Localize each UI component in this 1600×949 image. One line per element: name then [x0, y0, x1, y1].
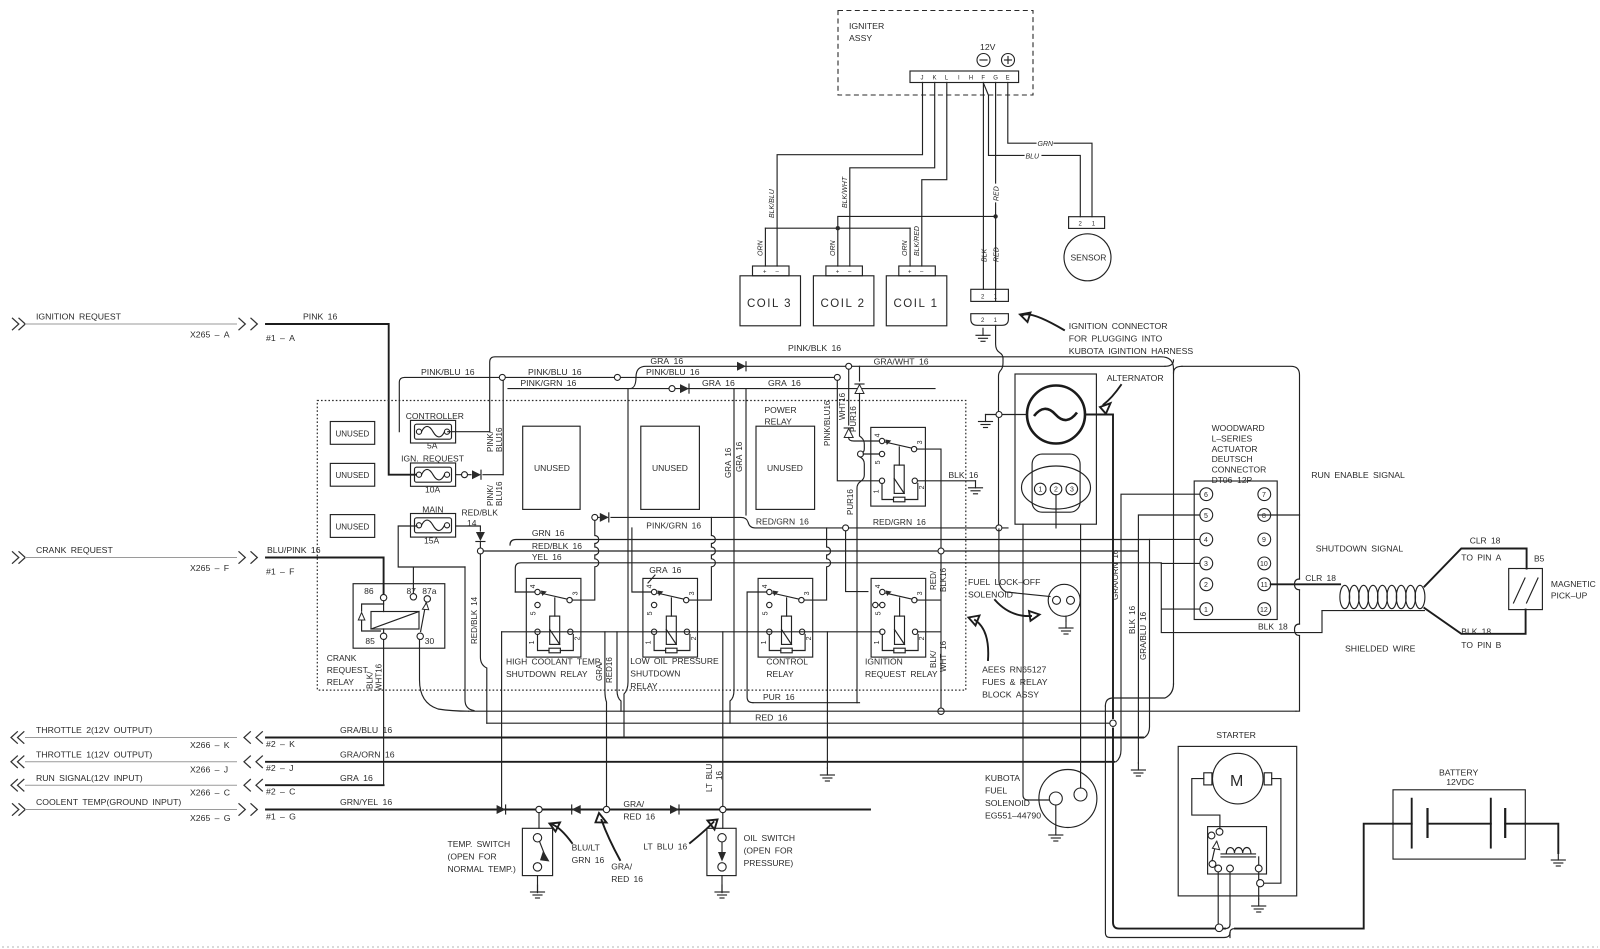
svg-text:1: 1 [1204, 607, 1208, 614]
svg-text:POWER: POWER [765, 405, 797, 415]
svg-text:PINK 16: PINK 16 [303, 312, 337, 322]
wire CLR 18 from pin11 to shielded cable [1271, 573, 1340, 584]
svg-text:BLU: BLU [1026, 153, 1041, 160]
node junction temp switch [536, 806, 542, 812]
svg-text:3: 3 [1070, 487, 1074, 494]
wire E to sensor pin 1 (GRN) [1008, 83, 1092, 217]
svg-text:LT BLU 16: LT BLU 16 [643, 842, 687, 852]
ignition connector lower (to Kubota harness) [971, 314, 1009, 326]
svg-text:WHT16: WHT16 [375, 663, 384, 691]
svg-text:SOLENOID: SOLENOID [985, 798, 1030, 808]
svg-text:(OPEN FOR: (OPEN FOR [448, 852, 497, 862]
svg-text:1: 1 [874, 489, 881, 493]
wire from 30 to RED 16 bus [420, 640, 469, 712]
wire PINK/GRN - RED/GRN 16 bus [592, 514, 1008, 531]
wire pin1-row drop to GRN/YEL at diode [501, 632, 503, 810]
svg-text:B5: B5 [1534, 554, 1545, 564]
wire GRN 16 bus [510, 528, 1150, 545]
svg-text:HIGH COOLANT TEMP.: HIGH COOLANT TEMP. [506, 657, 602, 667]
wire thin from alternator box to kubota solenoid [1023, 524, 1049, 800]
svg-text:BLU16: BLU16 [495, 427, 504, 452]
alternator connector oval 1 2 3 [1022, 454, 1091, 512]
alternator G1 symbol [1027, 386, 1085, 444]
svg-text:16: 16 [715, 771, 724, 780]
svg-text:ASSY: ASSY [849, 33, 872, 43]
svg-text:5: 5 [762, 611, 769, 615]
wire GRA 16 long drop to starter feed bus [724, 389, 734, 724]
label GRA/RED 16 mid with arrow [596, 799, 656, 884]
svg-text:4: 4 [530, 584, 537, 588]
svg-text:X265 – A: X265 – A [190, 329, 230, 339]
svg-text:RED/BLK: RED/BLK [462, 508, 499, 518]
svg-text:#1 – G: #1 – G [266, 812, 296, 822]
svg-text:K: K [933, 76, 937, 82]
diode D4 on GRN/YEL bus (left pointing) [572, 805, 581, 814]
svg-text:KUBOTA: KUBOTA [985, 773, 1020, 783]
svg-text:1: 1 [874, 640, 881, 644]
wire GRA 16 bus [266, 773, 384, 785]
wire RED/BLK 14 feed bus to starter [487, 720, 1116, 726]
igniter assy box [838, 11, 1033, 96]
svg-text:SHUTDOWN: SHUTDOWN [630, 669, 680, 679]
svg-text:FOR PLUGGING INTO: FOR PLUGGING INTO [1069, 334, 1163, 344]
svg-text:GRA/ORN 16: GRA/ORN 16 [340, 750, 395, 760]
svg-text:PINK/GRN 16: PINK/GRN 16 [646, 521, 701, 531]
svg-text:CRANK REQUEST: CRANK REQUEST [36, 545, 113, 555]
sensor B2 [1064, 234, 1111, 281]
fuel lock-off solenoid L1 [999, 529, 1080, 634]
wire IGN.REQUEST fuse output diode to PINK/BLU riser [456, 380, 504, 506]
unused fuse position 3 [330, 515, 374, 538]
svg-text:GRN: GRN [1038, 141, 1055, 148]
unused relay position 1 [523, 426, 580, 509]
wire HC relay pin3 riser to PINK/GRN [572, 520, 599, 600]
svg-text:RED/: RED/ [929, 570, 938, 590]
svg-text:4: 4 [1204, 537, 1208, 544]
svg-text:FUEL LOCK–OFF: FUEL LOCK–OFF [968, 577, 1040, 587]
diode D5 on GRN/YEL bus [670, 805, 679, 814]
label BLU/LT GRN 16 with arrow [550, 823, 605, 866]
svg-text:#2 – J: #2 – J [266, 763, 294, 773]
svg-text:CLR 18: CLR 18 [1470, 536, 1501, 546]
svg-text:GRA 16: GRA 16 [768, 378, 801, 388]
svg-text:PINK/BLK 16: PINK/BLK 16 [788, 343, 841, 353]
wire K to coil2 minus (BLK/WHT) [842, 83, 935, 267]
svg-text:1: 1 [529, 640, 536, 644]
wire LT BLU 16 drop to oil switch [705, 632, 726, 813]
svg-text:12: 12 [1260, 607, 1268, 614]
svg-text:J: J [921, 76, 924, 82]
wire GRA/RED drop to temp/oil switch bus [595, 632, 614, 813]
svg-text:3: 3 [572, 591, 579, 595]
svg-text:BLK: BLK [982, 248, 989, 262]
sensor connector 2-1 [1069, 217, 1105, 229]
wire MAIN fuse left pin to crank relay 87 [398, 526, 465, 594]
svg-text:4: 4 [875, 433, 882, 437]
wire drop to RED 16 bus left [465, 567, 474, 711]
svg-text:UNUSED: UNUSED [336, 522, 370, 531]
unused relay position 3 [756, 426, 815, 509]
svg-text:2: 2 [691, 636, 698, 640]
svg-text:DEUTSCH: DEUTSCH [1212, 454, 1253, 464]
wire power relay pin3 via RED/BLK16 down to RED 16 bus [917, 449, 948, 714]
wire GRA/ORN 16 bus [266, 750, 1114, 762]
ignition connector note text [1020, 313, 1193, 357]
svg-text:PINK/BLU 16: PINK/BLU 16 [646, 367, 700, 377]
svg-text:UNUSED: UNUSED [652, 463, 688, 473]
wire J to coil3 minus (BLK/BLU) [769, 83, 923, 267]
svg-text:2: 2 [1054, 487, 1058, 494]
svg-text:GRA/ORN 16: GRA/ORN 16 [1111, 549, 1120, 600]
svg-text:M: M [1230, 773, 1243, 790]
svg-text:CONTROLLER: CONTROLLER [406, 411, 464, 421]
svg-text:3: 3 [917, 591, 924, 595]
wire ORN bus feeding coil + terminals [757, 216, 995, 266]
wire pin8 run enable riser handled in GRA/WHT bus [1258, 514, 1271, 516]
svg-text:PICK–UP: PICK–UP [1551, 591, 1588, 601]
svg-text:BLK 16: BLK 16 [949, 470, 979, 480]
svg-text:YEL 16: YEL 16 [532, 552, 562, 562]
wire GRA 16 drop from PINK/GRN bus to RED/GRN bus [735, 389, 746, 515]
diode D3 on GRN/YEL bus [497, 805, 506, 814]
svg-text:RUN ENABLE SIGNAL: RUN ENABLE SIGNAL [1311, 470, 1405, 480]
wire GRA/ORN 16 from pin6 to throttle1 bus [1111, 494, 1200, 762]
svg-text:PINK/BLU 16: PINK/BLU 16 [421, 367, 475, 377]
svg-text:#1 – F: #1 – F [266, 567, 295, 577]
svg-text:FUEL: FUEL [985, 786, 1007, 796]
wire WHT16 from GRA/WHT bus to power relay pin4 [838, 369, 879, 441]
svg-text:#2 – C: #2 – C [266, 787, 295, 797]
node CRANK REQUEST input row [12, 545, 295, 576]
svg-text:30: 30 [425, 636, 435, 646]
wire drop from PINK/GRN bus [624, 389, 628, 738]
svg-text:GRA/: GRA/ [595, 661, 604, 681]
svg-text:2: 2 [574, 636, 581, 640]
svg-text:+: + [908, 270, 912, 276]
svg-text:#2 – K: #2 – K [266, 739, 295, 749]
wire LO relay pin4 riser to RED/GRN [632, 528, 682, 592]
svg-text:5: 5 [647, 611, 654, 615]
svg-text:BLK 18: BLK 18 [1461, 627, 1491, 637]
unused relay position 2 [641, 426, 700, 509]
svg-text:GRA 16: GRA 16 [702, 378, 735, 388]
ignition connector upper 2-1 [971, 289, 1009, 301]
svg-text:BLU/PINK 16: BLU/PINK 16 [267, 545, 321, 555]
wire CLR 18 to pin A of magnetic pickup [1424, 536, 1526, 587]
wire BLK 18 shield drain from pin area [1258, 622, 1288, 632]
svg-text:RED 16: RED 16 [611, 874, 643, 884]
svg-text:EG551–44790: EG551–44790 [985, 811, 1041, 821]
relay K2 high coolant temp shutdown [526, 578, 581, 657]
svg-text:GRN 16: GRN 16 [572, 855, 605, 865]
svg-text:RED 16: RED 16 [755, 713, 788, 723]
wire alternator connector pin2 down [1055, 495, 1057, 528]
svg-text:+: + [836, 270, 840, 276]
wire MAIN fuse feed RED/BLK 14 with diode [456, 508, 499, 724]
svg-text:PUR16: PUR16 [846, 489, 855, 515]
relay K4 control [758, 578, 813, 657]
svg-text:PINK/: PINK/ [486, 430, 495, 452]
wire CT relay pin3 riser to PINK/GRN [804, 528, 831, 600]
svg-text:CRANK: CRANK [327, 653, 357, 663]
svg-text:BLK/RED: BLK/RED [914, 226, 921, 256]
diode D6 on PINK/GRN - RED/GRN bus [600, 513, 609, 522]
svg-text:COOLENT TEMP(GROUND INPUT): COOLENT TEMP(GROUND INPUT) [36, 797, 181, 807]
woodward actuator text [1212, 423, 1267, 485]
unused fuse position 1 [330, 422, 374, 445]
wire PUR16 from GRA/WHT bus down to PUR 16 bus [846, 366, 879, 702]
svg-text:WOODWARD: WOODWARD [1212, 423, 1265, 433]
svg-text:L–SERIES: L–SERIES [1212, 433, 1253, 443]
svg-text:UNUSED: UNUSED [767, 463, 803, 473]
svg-text:2: 2 [919, 485, 926, 489]
svg-text:BATTERY: BATTERY [1439, 768, 1478, 778]
AEES block assy label with arrow [969, 616, 1048, 700]
wire PUR 16 bus [753, 692, 860, 703]
svg-text:G: G [993, 76, 998, 82]
wire GRA/BLU 16 from pin4 to throttle2 bus [1139, 539, 1200, 737]
ground at ignition connector [976, 328, 990, 341]
relay K6 power [871, 427, 926, 506]
svg-text:THROTTLE 2(12V OUTPUT): THROTTLE 2(12V OUTPUT) [36, 725, 152, 735]
svg-text:BLK/WHT: BLK/WHT [842, 176, 849, 208]
svg-text:GRA/: GRA/ [611, 862, 632, 872]
svg-text:KUBOTA IGINTION HARNESS: KUBOTA IGINTION HARNESS [1069, 346, 1194, 356]
connector J1 DT06-12P [1194, 481, 1277, 620]
wire DT06 pin3 stub [1161, 562, 1200, 564]
svg-text:RED: RED [994, 186, 1001, 201]
unused fuse position 2 [330, 463, 374, 486]
wire PINK/GRN 16 / GRA 16 bus [508, 378, 935, 392]
wire RED 16 bus [469, 711, 1296, 722]
svg-text:SHIELDED WIRE: SHIELDED WIRE [1345, 644, 1416, 654]
svg-text:10A: 10A [425, 485, 440, 495]
svg-text:RED/BLK 14: RED/BLK 14 [470, 596, 479, 644]
svg-text:2: 2 [806, 636, 813, 640]
wire relay pin1/pin2 common row [502, 631, 880, 633]
wire BLU/PINK 16 to crank relay 86 [266, 545, 384, 594]
svg-text:7: 7 [1262, 492, 1266, 499]
svg-text:3: 3 [689, 591, 696, 595]
svg-text:85: 85 [365, 636, 375, 646]
svg-text:SHUTDOWN SIGNAL: SHUTDOWN SIGNAL [1316, 544, 1404, 554]
svg-text:GRN/YEL 16: GRN/YEL 16 [340, 797, 392, 807]
svg-text:BLK/BLU: BLK/BLU [769, 188, 776, 218]
svg-text:X266 – J: X266 – J [190, 764, 228, 774]
svg-text:E: E [1006, 76, 1010, 82]
svg-text:H: H [969, 76, 973, 82]
svg-text:UNUSED: UNUSED [534, 463, 570, 473]
svg-text:3: 3 [804, 591, 811, 595]
svg-text:RELAY: RELAY [766, 669, 794, 679]
svg-text:GRA/BLU 16: GRA/BLU 16 [1139, 611, 1148, 660]
svg-text:5: 5 [531, 611, 538, 615]
node THROTTLE 1 output row [11, 750, 294, 775]
wire GRA/BLU 16 bus [266, 725, 1143, 737]
svg-text:OIL SWITCH: OIL SWITCH [744, 833, 795, 843]
svg-text:WHT16: WHT16 [838, 392, 847, 420]
node IGNITION REQUEST input row [12, 312, 295, 343]
wire ignition connector pin1 drop to RED/GRN bus [996, 325, 1003, 525]
kubota fuel solenoid L2 [1039, 524, 1097, 841]
node THROTTLE 2 output row [11, 725, 295, 750]
svg-text:86: 86 [364, 586, 374, 596]
svg-text:UNUSED: UNUSED [336, 429, 370, 438]
svg-text:IGN. REQUEST: IGN. REQUEST [401, 453, 464, 463]
svg-text:4: 4 [875, 584, 882, 588]
svg-text:GRA 16: GRA 16 [724, 447, 733, 478]
svg-text:GRA 16: GRA 16 [340, 773, 373, 783]
svg-text:BLU16: BLU16 [495, 481, 504, 506]
svg-text:4: 4 [647, 584, 654, 588]
diode D1 on GRA 16 bus [737, 362, 746, 371]
fuse F1 CONTROLLER 5A [406, 411, 464, 451]
svg-text:TO PIN B: TO PIN B [1461, 640, 1501, 650]
12V supply symbols [977, 42, 1015, 67]
svg-text:GRA 16: GRA 16 [735, 441, 744, 472]
node COOLENT TEMP input row [12, 797, 296, 823]
svg-text:5: 5 [1204, 513, 1208, 520]
svg-text:RED16: RED16 [605, 657, 614, 683]
svg-text:GRA/WHT 16: GRA/WHT 16 [874, 357, 929, 367]
svg-text:TO PIN A: TO PIN A [1461, 553, 1501, 563]
svg-text:THROTTLE 1(12V OUTPUT): THROTTLE 1(12V OUTPUT) [36, 750, 152, 760]
svg-text:RED/BLK 16: RED/BLK 16 [532, 541, 582, 551]
svg-text:9: 9 [1262, 537, 1266, 544]
svg-text:PINK/BLU 16: PINK/BLU 16 [528, 367, 582, 377]
svg-text:AEES RN65127: AEES RN65127 [982, 665, 1046, 675]
battery label [1439, 768, 1478, 788]
svg-text:RED/GRN 16: RED/GRN 16 [756, 517, 809, 527]
svg-text:1: 1 [1038, 487, 1042, 494]
svg-text:3: 3 [1204, 561, 1208, 568]
wire PINK/BLU 16 bus [399, 367, 840, 432]
svg-text:PINK/: PINK/ [486, 484, 495, 506]
svg-text:BLOCK ASSY: BLOCK ASSY [982, 690, 1039, 700]
wire IR relay pin4 riser to RED/GRN bus [846, 531, 868, 592]
wire GRA 16 / GRA/WHT 16 bus to DT06 pin 8 [630, 356, 1300, 515]
svg-text:REQUEST RELAY: REQUEST RELAY [865, 669, 938, 679]
svg-text:X265 – G: X265 – G [190, 813, 231, 823]
wire YEL 16 bus (to DT06 pin 3) [515, 552, 1322, 633]
starter solenoid K7 [1208, 827, 1267, 874]
wire second drop to RED 16 bus [617, 632, 621, 711]
svg-text:PRESSURE): PRESSURE) [744, 858, 794, 868]
relay captions [506, 657, 602, 680]
wire BLK 18 to pin B of magnetic pickup [1424, 608, 1525, 650]
svg-text:CONTROL: CONTROL [766, 657, 808, 667]
wire battery positive to starter bus [1235, 824, 1393, 929]
svg-text:RED 16: RED 16 [623, 812, 655, 822]
svg-text:PINK/BLU16: PINK/BLU16 [823, 400, 832, 446]
relay K3 low oil pressure shutdown [643, 578, 698, 657]
svg-text:BLK16: BLK16 [939, 567, 948, 592]
svg-text:DT06–12P: DT06–12P [1212, 475, 1253, 485]
alternator label and arrow [1100, 373, 1164, 414]
wire controller fuse output to PINK/BLK [448, 431, 490, 433]
svg-text:2: 2 [1204, 582, 1208, 589]
oil switch S2 [707, 813, 795, 898]
svg-text:#1 – A: #1 – A [266, 333, 295, 343]
svg-text:5: 5 [875, 611, 882, 615]
svg-text:SHUTDOWN RELAY: SHUTDOWN RELAY [506, 669, 588, 679]
svg-text:GRA/: GRA/ [623, 799, 644, 809]
svg-text:87a: 87a [422, 586, 436, 596]
igniter terminal strip J K L I H F G E [910, 71, 1019, 83]
diode D2 on PINK/GRN bus [680, 384, 689, 393]
svg-text:1: 1 [761, 640, 768, 644]
wire power relay pin2 to ground BLK 16 [918, 470, 983, 494]
coil C2 [813, 266, 874, 326]
svg-text:ALTERNATOR: ALTERNATOR [1107, 373, 1164, 383]
svg-text:ORN: ORN [902, 240, 909, 257]
magnetic pickup B5 [1509, 554, 1596, 610]
svg-text:GRA 16: GRA 16 [650, 356, 683, 366]
svg-text:MAGNETIC: MAGNETIC [1551, 579, 1596, 589]
wire G down to ignition connector pin 1 (RED) [993, 83, 1000, 302]
wire alternator B+ to starter feed [1085, 415, 1225, 929]
svg-text:4: 4 [762, 584, 769, 588]
svg-text:F: F [981, 76, 985, 82]
alternator box [1015, 374, 1096, 524]
svg-text:REQUEST: REQUEST [327, 665, 368, 675]
svg-text:WHT 16: WHT 16 [939, 640, 948, 672]
svg-text:NORMAL TEMP.): NORMAL TEMP.) [448, 864, 516, 874]
kubota fuel solenoid label [985, 773, 1041, 821]
fuel lock-off solenoid label [968, 577, 1040, 621]
svg-text:(OPEN FOR: (OPEN FOR [744, 845, 793, 855]
svg-text:10: 10 [1260, 561, 1268, 568]
svg-text:PUR 16: PUR 16 [763, 692, 795, 702]
svg-text:RUN SIGNAL(12V INPUT): RUN SIGNAL(12V INPUT) [36, 773, 143, 783]
svg-text:X266 – C: X266 – C [190, 788, 230, 798]
svg-text:SOLENOID: SOLENOID [968, 590, 1013, 600]
page border dotted line [2, 946, 1598, 948]
relay K5 ignition request [871, 578, 926, 657]
wire F branch to sensor pin 2 (BLU) [983, 83, 1080, 217]
node RUN SIGNAL input row [11, 773, 295, 798]
svg-text:TEMP. SWITCH: TEMP. SWITCH [448, 839, 511, 849]
wire PINK 16 to IGN.REQUEST fuse [266, 312, 418, 475]
svg-text:2: 2 [919, 636, 926, 640]
svg-text:FUES & RELAY: FUES & RELAY [982, 677, 1048, 687]
wire PINK/BLK 16 bus [490, 343, 1174, 684]
svg-text:COIL 2: COIL 2 [821, 298, 866, 310]
svg-text:5: 5 [875, 460, 882, 464]
svg-text:15A: 15A [424, 536, 439, 546]
svg-text:COIL 1: COIL 1 [894, 298, 939, 310]
svg-text:RED/GRN 16: RED/GRN 16 [873, 517, 926, 527]
wire L to coil1 minus (BLK/RED) [914, 83, 947, 267]
svg-text:12VDC: 12VDC [1446, 777, 1474, 787]
svg-text:6: 6 [1204, 492, 1208, 499]
svg-text:RELAY: RELAY [630, 681, 658, 691]
svg-text:X265 – F: X265 – F [190, 563, 229, 573]
svg-text:STARTER: STARTER [1216, 730, 1256, 740]
svg-text:5A: 5A [427, 441, 438, 451]
coil C3 [740, 266, 801, 326]
svg-text:CLR 18: CLR 18 [1305, 573, 1336, 583]
svg-text:X266 – K: X266 – K [190, 740, 230, 750]
svg-text:CONNECTOR: CONNECTOR [1212, 465, 1267, 475]
wire GRN/YEL 16 bus [266, 797, 870, 809]
wire shutdown loop vertical right of DT06 [1295, 515, 1300, 711]
svg-text:1: 1 [646, 640, 653, 644]
svg-text:BLK 18: BLK 18 [1258, 622, 1288, 632]
svg-text:ACTUATOR: ACTUATOR [1212, 444, 1258, 454]
svg-text:IGNITION: IGNITION [865, 657, 903, 667]
wire LO relay pin3 riser to PINK/GRN [689, 517, 716, 600]
